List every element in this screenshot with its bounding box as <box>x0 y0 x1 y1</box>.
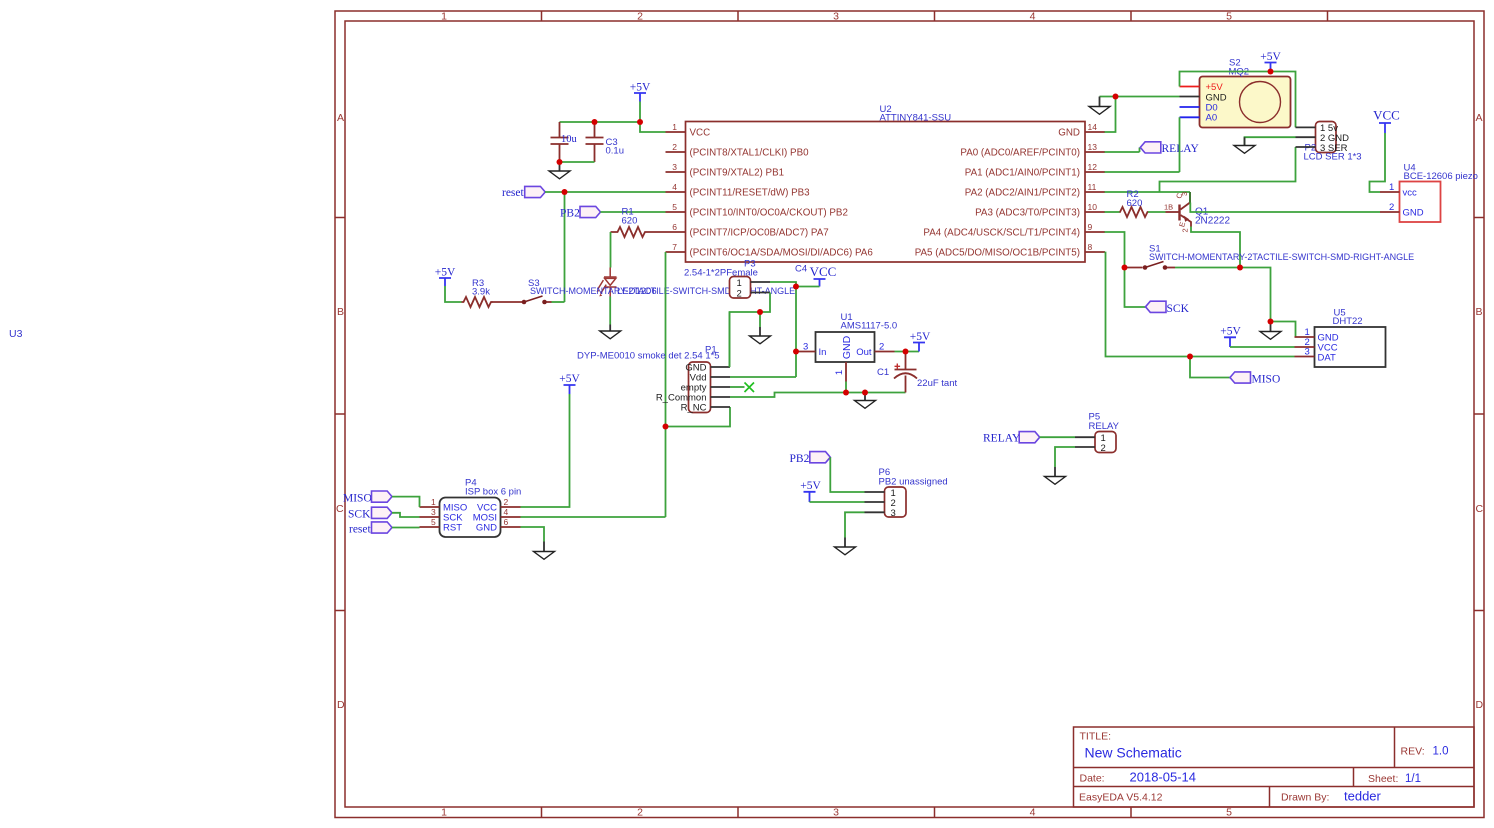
U2 right pin numbers <box>1088 122 1098 252</box>
svg-text:SWITCH-MOMENTARY-2TACTILE-SWIT: SWITCH-MOMENTARY-2TACTILE-SWITCH-SMD-RIG… <box>530 286 795 296</box>
svg-text:Out: Out <box>856 347 872 358</box>
net flag reset (P4) <box>349 522 392 536</box>
svg-text:5: 5 <box>1226 807 1232 819</box>
net flag PB2 (U2 pin5) <box>560 206 601 219</box>
svg-text:4: 4 <box>504 507 509 517</box>
U1 pin1 GND stub <box>834 362 846 382</box>
ground (under U1) <box>855 393 876 409</box>
U2 right pin stubs 14-8 <box>1085 132 1105 252</box>
svg-text:(PCINT11/RESET/dW) PB3: (PCINT11/RESET/dW) PB3 <box>690 188 811 199</box>
svg-text:(PCINT6/OC1A/SDA/MOSI/DI/ADC6): (PCINT6/OC1A/SDA/MOSI/DI/ADC6) PA6 <box>690 248 874 259</box>
P4 left pin stubs <box>420 507 440 527</box>
U5 pin stubs <box>1295 327 1315 358</box>
ground (under LED) <box>600 325 621 339</box>
buzzer U4 BCE-12606 piezo <box>1400 163 1478 223</box>
P4 right pin stubs <box>501 507 521 527</box>
svg-text:5: 5 <box>1226 11 1232 23</box>
svg-text:PB2: PB2 <box>560 208 580 220</box>
svg-text:In: In <box>819 347 827 358</box>
svg-text:1/1: 1/1 <box>1405 773 1421 785</box>
svg-text:2: 2 <box>1181 228 1190 232</box>
svg-text:C: C <box>1476 503 1484 515</box>
junction dots layer <box>557 69 1274 430</box>
wire P3 pin2 to gnd node <box>730 293 771 368</box>
svg-text:0.1u: 0.1u <box>606 146 625 157</box>
connector P5 RELAY <box>1089 412 1120 455</box>
resistor R3 3.9k <box>462 278 493 307</box>
wire reset junction down to S3 <box>564 192 566 302</box>
svg-text:6: 6 <box>504 517 509 527</box>
wire +5V to DHT VCC <box>1230 346 1295 348</box>
wire S1 to DHT GND <box>1175 268 1296 338</box>
svg-text:+5V: +5V <box>1220 326 1241 338</box>
svg-text:Sheet:: Sheet: <box>1368 773 1398 785</box>
P5 pin stubs <box>1075 437 1095 447</box>
svg-text:ATTINY841-SSU: ATTINY841-SSU <box>880 113 952 124</box>
wire MISO to P4 pin1 <box>392 497 420 507</box>
svg-text:VCC: VCC <box>810 264 837 279</box>
svg-text:C1: C1 <box>877 367 889 378</box>
svg-text:8: 8 <box>1088 242 1093 252</box>
P4 pin names <box>443 503 497 534</box>
wire P1 R_Common to gnd rail <box>730 393 906 398</box>
svg-text:C4: C4 <box>795 264 807 275</box>
svg-text:2: 2 <box>1101 443 1106 454</box>
connector P2 LCD SER 1*3 <box>1304 122 1362 163</box>
svg-text:1: 1 <box>441 807 447 819</box>
svg-text:GND: GND <box>476 523 497 534</box>
junction <box>637 119 643 125</box>
net flag SCK (S1) <box>1146 301 1190 315</box>
wire +5V to P6 pin2 <box>810 501 865 503</box>
svg-text:GND: GND <box>1058 128 1080 139</box>
P4 pin numbers <box>431 497 509 527</box>
svg-text:4: 4 <box>1030 11 1036 23</box>
IC U2 ATTINY841-SSU body <box>686 104 1086 262</box>
svg-text:3: 3 <box>672 162 677 172</box>
svg-text:PB2: PB2 <box>790 453 810 465</box>
svg-text:tedder: tedder <box>1344 789 1382 804</box>
svg-text:1.0: 1.0 <box>1433 746 1449 758</box>
junction <box>843 390 849 396</box>
P6 pin stubs <box>865 492 885 512</box>
junction <box>557 159 563 165</box>
svg-text:1: 1 <box>672 122 677 132</box>
junction <box>663 424 669 430</box>
power flag +5V (U1 out) <box>910 331 931 352</box>
svg-text:RST: RST <box>443 523 462 534</box>
svg-text:A: A <box>337 112 344 124</box>
svg-text:2: 2 <box>737 289 742 300</box>
svg-text:(PCINT10/INT0/OC0A/CKOUT) PB2: (PCINT10/INT0/OC0A/CKOUT) PB2 <box>690 208 848 219</box>
P1 pin stubs <box>711 367 731 407</box>
power flag +5V (DHT) <box>1220 326 1241 348</box>
svg-text:C: C <box>336 503 344 515</box>
wire P6 pin3 to ground <box>845 512 865 537</box>
junction <box>1237 265 1243 271</box>
wire reset to P4 pin5 <box>392 527 420 529</box>
wire LED to ground <box>609 297 611 325</box>
svg-text:620: 620 <box>1127 198 1143 209</box>
svg-text:TITLE:: TITLE: <box>1080 731 1112 743</box>
resistor R1 620 <box>611 207 666 238</box>
svg-text:1: 1 <box>431 497 436 507</box>
svg-text:PA3 (ADC3/T0/PCINT3): PA3 (ADC3/T0/PCINT3) <box>975 208 1080 219</box>
S2 pin stubs <box>1180 87 1200 118</box>
U2 left pin names <box>690 128 874 259</box>
ground (under P6) <box>835 538 856 555</box>
svg-text:VCC: VCC <box>1373 108 1400 123</box>
net flag reset (U2 pin4) <box>502 186 545 199</box>
svg-text:MISO: MISO <box>343 493 372 505</box>
LED D1 <box>597 268 617 297</box>
svg-text:3: 3 <box>1305 347 1310 358</box>
wire U2 pin11 to P2 SER / Q1 collector <box>1105 147 1296 192</box>
resistor R2 620 <box>1105 189 1149 217</box>
transistor Q1 2N2222 <box>1164 191 1230 232</box>
wire P2 GND to ground <box>1245 137 1296 145</box>
sensor U5 DHT22 <box>1315 308 1386 368</box>
svg-text:A: A <box>1476 112 1483 124</box>
net flag MISO (P4) <box>343 491 392 505</box>
P2 pin stubs <box>1296 127 1316 147</box>
switch S1 <box>1125 244 1415 270</box>
U2 left pin stubs 1-7 <box>666 132 686 252</box>
regulator U1 AMS1117-5.0 <box>816 312 898 362</box>
wire U2 pin12 to S2 A0 <box>1105 117 1180 172</box>
svg-text:2: 2 <box>637 11 643 23</box>
row ticks right <box>1474 218 1484 611</box>
svg-text:2.54-1*2PFemale: 2.54-1*2PFemale <box>684 268 758 279</box>
wire P4 GND to ground <box>521 527 545 542</box>
svg-text:E: E <box>1177 221 1187 228</box>
svg-text:EasyEDA V5.4.12: EasyEDA V5.4.12 <box>1079 792 1163 804</box>
wire R2 to Q1 base <box>1148 211 1166 213</box>
svg-text:LCD SER 1*3: LCD SER 1*3 <box>1304 152 1362 163</box>
wire +5V to U2 pin1 <box>560 102 666 133</box>
power flag +5V (top, near U2 pin1) <box>630 82 651 102</box>
svg-text:PA1 (ADC1/AIN0/PCINT1): PA1 (ADC1/AIN0/PCINT1) <box>965 168 1080 179</box>
wire PB2 to pin5 <box>601 211 666 213</box>
wire S3 to reset net <box>552 301 565 303</box>
svg-text:13: 13 <box>1088 142 1098 152</box>
net flag RELAY (P5) <box>983 432 1040 445</box>
svg-text:PB2 unassigned: PB2 unassigned <box>879 477 948 488</box>
svg-text:BCE-12606 piezo: BCE-12606 piezo <box>1404 171 1478 182</box>
U1 pin2 Out stub <box>875 342 895 353</box>
svg-text:1: 1 <box>441 11 447 23</box>
svg-text:SCK: SCK <box>1167 303 1190 315</box>
ground (DHT GND rail) <box>1260 322 1281 340</box>
ground (under S2, P2 GND) <box>1234 137 1255 153</box>
wire Q1 emitter down to S1 <box>1191 227 1240 268</box>
svg-text:10u: 10u <box>561 134 578 145</box>
ground (under P5) <box>1045 467 1066 484</box>
wire P1 Vdd to VCC riser <box>730 376 796 378</box>
junction <box>793 284 799 290</box>
junction <box>1122 265 1128 271</box>
junction <box>592 119 598 125</box>
ground (S2/pin14) <box>1089 97 1110 115</box>
svg-text:11: 11 <box>1088 182 1097 192</box>
svg-text:MISO: MISO <box>1252 374 1281 386</box>
svg-text:RELAY: RELAY <box>1162 143 1200 155</box>
wire U2 pin14 GND to S2 GND <box>1100 97 1180 133</box>
wire R1 to LED D1 <box>610 232 612 268</box>
column labels bottom <box>441 807 1232 819</box>
power flag VCC (P3) <box>810 264 837 287</box>
svg-text:2N2222: 2N2222 <box>1195 216 1230 227</box>
wire SCK to P4 pin3 <box>392 513 420 517</box>
svg-text:RELAY: RELAY <box>983 433 1021 445</box>
sheet outer border <box>335 11 1484 818</box>
power flag +5V (P4) <box>559 373 580 394</box>
svg-text:1: 1 <box>1389 182 1394 193</box>
svg-text:U3: U3 <box>9 328 23 340</box>
svg-text:2018-05-14: 2018-05-14 <box>1130 770 1197 785</box>
svg-text:2: 2 <box>879 342 884 353</box>
power flag +5V (S2) <box>1260 51 1281 72</box>
svg-text:DHT22: DHT22 <box>1333 316 1363 327</box>
svg-text:vcc: vcc <box>1403 188 1418 199</box>
svg-text:3: 3 <box>1180 192 1189 196</box>
connector P4 ISP box 6 pin <box>440 478 522 538</box>
svg-text:GND: GND <box>841 335 853 359</box>
power flag VCC (U4) <box>1373 108 1400 134</box>
svg-text:DAT: DAT <box>1318 353 1336 364</box>
wire P4 MOSI to U2 pin7 net <box>521 516 666 518</box>
svg-text:SWITCH-MOMENTARY-2TACTILE-SWIT: SWITCH-MOMENTARY-2TACTILE-SWITCH-SMD-RIG… <box>1149 252 1414 262</box>
svg-text:5: 5 <box>672 202 677 212</box>
U2 right pin names <box>915 128 1080 259</box>
svg-text:+5V: +5V <box>910 331 931 343</box>
wire P3 pin1 to VCC <box>770 282 796 287</box>
wire reset to pin4 <box>545 191 666 193</box>
wire VCC riser to U1 In and P1 Vdd <box>795 287 797 378</box>
net flag SCK (P4) <box>348 507 392 520</box>
net flag MISO (DHT) <box>1230 372 1280 386</box>
junction <box>562 189 568 195</box>
svg-text:A0: A0 <box>1206 113 1218 124</box>
svg-text:D: D <box>1476 699 1484 711</box>
svg-text:Date:: Date: <box>1080 773 1105 785</box>
junction <box>1113 94 1119 100</box>
svg-text:ISP box 6 pin: ISP box 6 pin <box>465 487 521 498</box>
svg-text:+5V: +5V <box>1206 82 1224 93</box>
svg-text:2: 2 <box>637 807 643 819</box>
svg-text:REV:: REV: <box>1401 746 1425 758</box>
svg-text:PA5 (ADC5/DO/MISO/OC1B/PCINT5): PA5 (ADC5/DO/MISO/OC1B/PCINT5) <box>915 248 1080 259</box>
svg-text:New Schematic: New Schematic <box>1085 745 1182 761</box>
P1 pin names <box>656 363 707 414</box>
svg-text:2: 2 <box>504 497 509 507</box>
svg-text:4: 4 <box>672 182 677 192</box>
svg-text:6: 6 <box>672 222 677 232</box>
svg-text:3: 3 <box>891 508 896 519</box>
title block <box>1074 727 1475 807</box>
wire Q1 collector to U4 GND <box>1190 203 1380 213</box>
svg-text:14: 14 <box>1088 122 1098 132</box>
svg-text:+5V: +5V <box>435 267 456 279</box>
connector P6 PB2 unassigned <box>879 467 948 519</box>
wire Q1 collector up to pin11 net <box>1189 192 1191 203</box>
wire U1 GND to rail <box>845 382 847 393</box>
svg-text:3: 3 <box>803 342 808 353</box>
svg-text:AMS1117-5.0: AMS1117-5.0 <box>841 321 898 332</box>
svg-text:(PCINT8/XTAL1/CLKI) PB0: (PCINT8/XTAL1/CLKI) PB0 <box>690 148 810 159</box>
svg-text:D: D <box>337 699 345 711</box>
U1 pin3 In stub <box>796 342 816 353</box>
U4 pin stubs <box>1380 182 1400 213</box>
wire P5 pin2 to ground <box>1055 447 1075 467</box>
wire U1 Out to +5V <box>895 351 920 353</box>
wire VCC to U4 pin1 <box>1370 133 1386 192</box>
net flag RELAY (U2 pin13) <box>1105 142 1200 155</box>
connector P3 2.54-1*2PFemale <box>684 259 758 300</box>
wire PB2 flag to P6 pin1 <box>830 457 864 492</box>
svg-text:9: 9 <box>1088 222 1093 232</box>
junction <box>757 309 763 315</box>
svg-text:10: 10 <box>1088 202 1098 212</box>
capacitor C1 22uF tant <box>877 352 957 393</box>
sheet inner border <box>345 21 1474 807</box>
capacitor C3 0.1u <box>586 122 625 162</box>
wire MISO branch <box>1190 357 1230 378</box>
svg-text:PA4 (ADC4/USCK/SCL/T1/PCINT4): PA4 (ADC4/USCK/SCL/T1/PCINT4) <box>923 228 1080 239</box>
no-connect X on empty pin <box>730 383 754 393</box>
svg-text:3: 3 <box>833 807 839 819</box>
junction <box>793 349 799 355</box>
capacitor 10u <box>551 122 578 162</box>
ground (under P3) <box>750 312 771 344</box>
svg-text:4: 4 <box>1030 807 1036 819</box>
svg-text:620: 620 <box>622 216 638 227</box>
svg-text:reset: reset <box>502 187 525 199</box>
svg-text:5: 5 <box>431 517 436 527</box>
row labels left <box>336 112 345 711</box>
wire junction to VCC <box>796 286 820 288</box>
wire P4 VCC up to +5V <box>521 394 570 507</box>
wire cap commons <box>560 161 595 163</box>
svg-text:GND: GND <box>1403 208 1424 219</box>
column ticks top <box>542 11 1328 21</box>
svg-text:3: 3 <box>431 507 436 517</box>
wire U2 pin7 down to P4 MOSI <box>665 252 667 517</box>
svg-text:2: 2 <box>1389 202 1394 213</box>
svg-text:(PCINT9/XTAL2) PB1: (PCINT9/XTAL2) PB1 <box>690 168 785 179</box>
junction <box>1268 69 1274 75</box>
gas sensor S2 MQ2 <box>1200 58 1291 128</box>
svg-text:B: B <box>1476 306 1483 318</box>
svg-text:RELAY: RELAY <box>1089 421 1120 432</box>
svg-text:B: B <box>337 306 344 318</box>
column ticks bottom <box>542 807 1132 818</box>
svg-text:+5V: +5V <box>559 373 580 385</box>
wire SCK branch <box>1125 268 1146 308</box>
net flag PB2 (P6) <box>790 452 831 465</box>
svg-text:reset: reset <box>349 524 372 536</box>
wire R3 to S3 <box>492 301 525 303</box>
svg-text:3: 3 <box>833 11 839 23</box>
P3 pin stubs <box>751 282 771 293</box>
wire U2 pin8 to DHT DAT <box>1105 253 1295 357</box>
row ticks left <box>335 218 345 611</box>
power flag +5V (P6) <box>800 480 821 502</box>
svg-text:7: 7 <box>672 242 677 252</box>
wire +5V net over S2 <box>1180 72 1296 128</box>
svg-text:+5V: +5V <box>800 480 821 492</box>
svg-text:(PCINT7/ICP/OC0B/ADC7) PA7: (PCINT7/ICP/OC0B/ADC7) PA7 <box>690 228 829 239</box>
ground (under P4) <box>534 542 555 560</box>
svg-text:Drawn By:: Drawn By: <box>1281 792 1329 804</box>
switch S3 <box>522 278 552 304</box>
svg-text:PA0 (ADC0/AREF/PCINT0): PA0 (ADC0/AREF/PCINT0) <box>960 148 1080 159</box>
power flag +5V (R3) <box>435 267 456 287</box>
svg-text:1: 1 <box>834 370 845 375</box>
svg-text:12: 12 <box>1088 162 1098 172</box>
ground (under C3/10u) <box>549 162 570 179</box>
wire U2 pin9 to S1 <box>1105 232 1125 268</box>
wire +5V to R3 <box>445 286 462 302</box>
svg-text:1B: 1B <box>1164 203 1173 212</box>
svg-text:PA2 (ADC2/AIN1/PCINT2): PA2 (ADC2/AIN1/PCINT2) <box>965 188 1080 199</box>
junction <box>1268 319 1274 325</box>
wire RELAY flag to P5 pin1 <box>1040 436 1075 438</box>
svg-text:VCC: VCC <box>690 128 711 139</box>
wire junction to P1 R_NC <box>666 407 731 427</box>
svg-text:+5V: +5V <box>1260 51 1281 63</box>
svg-text:22uF tant: 22uF tant <box>917 378 957 389</box>
svg-text:2: 2 <box>672 142 677 152</box>
svg-text:R_NC: R_NC <box>681 403 707 414</box>
junction <box>862 390 868 396</box>
row labels right <box>1476 112 1484 711</box>
svg-text:3.9k: 3.9k <box>472 287 490 298</box>
U2 left pin numbers <box>672 122 677 252</box>
svg-text:1: 1 <box>737 278 742 289</box>
connector P1 DYP-ME0010 <box>577 345 720 413</box>
svg-text:+5V: +5V <box>630 82 651 94</box>
junction <box>1187 354 1193 360</box>
svg-text:DYP-ME0010 smoke det 2.54 1*5: DYP-ME0010 smoke det 2.54 1*5 <box>577 351 720 362</box>
junction <box>903 349 909 355</box>
svg-text:SCK: SCK <box>348 509 371 521</box>
column labels top <box>441 11 1232 23</box>
wire P1 GND up to P3 pin2 node <box>729 312 732 367</box>
